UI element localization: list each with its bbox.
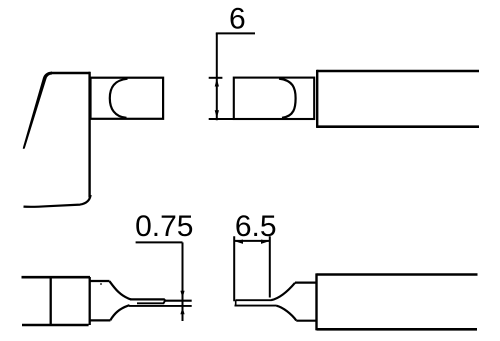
hoof bottom curve <box>277 306 297 321</box>
blade taper top curve <box>110 281 132 299</box>
lower barrel left edge <box>315 273 317 330</box>
hoof blade left end <box>235 300 237 305</box>
chisel tip D-arc <box>279 79 296 118</box>
handle right edge <box>88 72 90 198</box>
blade tip base bottom edge <box>89 319 110 321</box>
blade bottom line <box>129 305 192 307</box>
top barrel bottom edge <box>317 125 479 128</box>
dimension 6.5 arrow left <box>235 240 243 244</box>
lower barrel top edge <box>317 273 478 276</box>
dimension 6 arrow up <box>215 79 219 87</box>
anvil D-arc <box>110 79 128 118</box>
anvil rectangle <box>91 78 164 119</box>
dimension 6.5 line <box>234 240 270 242</box>
dimension 6 leader line <box>216 32 255 34</box>
blade top line <box>130 299 192 300</box>
dimension 6.5 arrow right <box>261 240 269 244</box>
blade taper bottom curve <box>110 305 129 320</box>
blade mid step line <box>137 301 165 304</box>
hoof top curve <box>271 283 295 300</box>
hoof blade top line <box>236 299 272 301</box>
lower-left barrel bottom edge <box>22 324 89 327</box>
dimension 6 top extension line <box>209 77 223 79</box>
dimension 6.5 left extension <box>233 236 235 301</box>
handle slanted left edge with corner (tapered) <box>23 72 52 149</box>
dimension 0.75 line <box>182 242 184 321</box>
speck on tip base <box>100 283 102 285</box>
lower-left barrel joint line <box>50 277 52 325</box>
top barrel top edge <box>317 70 479 73</box>
handle top edge <box>51 72 90 75</box>
dimension 6.5 right extension <box>269 236 271 297</box>
lower barrel bottom edge <box>317 328 478 331</box>
hoof base top edge <box>295 282 317 284</box>
dimension 6 bottom extension line <box>209 118 234 120</box>
chisel tip rectangle <box>234 78 314 119</box>
lower-left barrel right end <box>89 277 91 325</box>
lower-left barrel top edge <box>22 276 91 279</box>
svg-text:0.75: 0.75 <box>135 210 193 243</box>
dimension 0.75 arrow up <box>180 307 184 314</box>
dimension 0.75 leader line <box>136 241 183 243</box>
blade tip base top edge <box>90 280 110 282</box>
svg-text:6: 6 <box>229 2 246 35</box>
dimension 6 arrow down <box>215 110 219 118</box>
hoof blade bottom line <box>235 305 277 307</box>
hoof base bottom edge <box>296 320 316 322</box>
handle bottom edge (curved, tapered) <box>24 195 91 207</box>
dimension 0.75 arrow down <box>180 291 184 299</box>
top barrel left edge <box>316 70 318 128</box>
dimension 6 line <box>216 33 218 120</box>
